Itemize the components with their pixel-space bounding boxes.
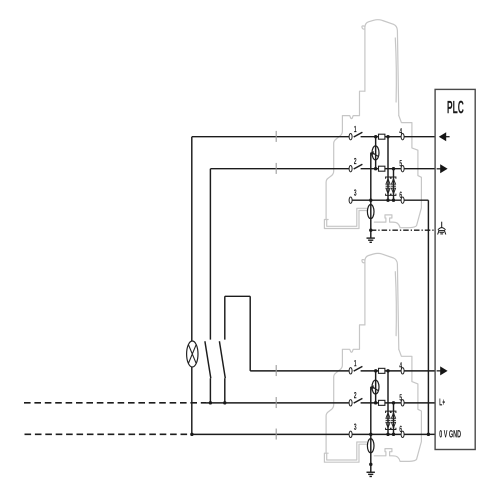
PLC label xyxy=(448,101,464,114)
sensor S2 internal circuit xyxy=(349,360,435,476)
wire S2 row1 to left xyxy=(250,370,349,372)
PLC functional earth glyph xyxy=(438,222,446,235)
lamp P1 xyxy=(187,341,198,367)
switch1 blade xyxy=(205,341,211,378)
PLC box xyxy=(435,89,475,449)
PLC output arrow row A2 (right) xyxy=(440,164,447,173)
sensor S2 pictorial outline xyxy=(324,253,421,462)
wire S2 row3 to PLC xyxy=(428,433,435,435)
PLC label 0 V GND xyxy=(439,430,460,437)
cable marker ticks xyxy=(275,131,277,440)
wire S2 row3 solid left part xyxy=(192,433,349,435)
wire S2 row2 solid left part xyxy=(206,402,349,404)
wire S1 row1 to left xyxy=(192,136,349,138)
PLC output arrow row B1 (right) xyxy=(440,366,447,375)
PLC input arrow row A1 (left) xyxy=(439,132,446,141)
PLC label L+ xyxy=(440,399,445,406)
wire step to S2 row1 xyxy=(225,296,250,371)
wire S1 row2 to left xyxy=(210,168,349,170)
sensor S1 pictorial outline xyxy=(324,20,421,229)
wire switch2 vertical xyxy=(224,296,226,403)
wire 0V GND dashed xyxy=(25,433,190,435)
wire lamp vertical xyxy=(191,137,193,435)
sensor S1 internal circuit xyxy=(349,126,435,242)
switch2 blade xyxy=(219,341,225,378)
junction nodes left section xyxy=(190,401,430,436)
wire L+ dashed xyxy=(24,402,206,404)
wire switch1 vertical xyxy=(209,169,211,403)
wire functional-earth dash-dot S1 xyxy=(371,229,435,231)
wire S1 pin6 drop to 0V xyxy=(427,200,429,434)
